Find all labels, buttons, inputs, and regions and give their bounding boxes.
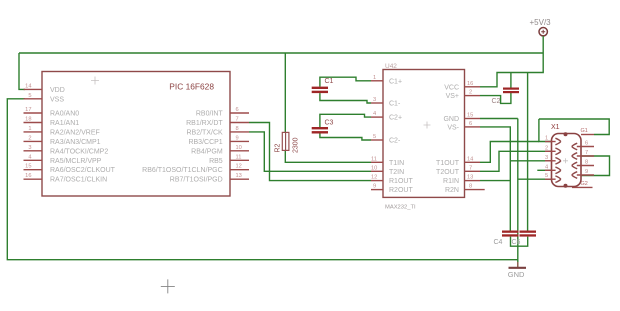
wire T1OUT to X1 pin 1 riser	[480, 142, 539, 163]
pin RA2/AN2/VREF 1	[24, 126, 100, 137]
svg-text:9: 9	[236, 135, 239, 141]
pin VCC 16	[444, 81, 480, 92]
svg-text:4: 4	[545, 164, 548, 170]
svg-text:T2IN: T2IN	[389, 169, 404, 176]
wire X1 pin1 riser to G1 net	[539, 119, 552, 142]
svg-text:10: 10	[371, 165, 377, 171]
wire VDD from rail to PIC pin 14	[19, 53, 25, 89]
wire C2 top stub to +5V run	[510, 73, 512, 88]
svg-text:7: 7	[469, 165, 472, 171]
svg-text:4: 4	[28, 154, 31, 160]
wire C1 bottom to MAX232 C1-	[320, 93, 371, 103]
SECTION: wires	[7, 53, 609, 268]
origin cross PIC	[91, 77, 99, 85]
pin T1IN 11	[371, 156, 404, 167]
pin R1IN 13	[443, 175, 480, 186]
wire R2 top lead to +5V rail	[284, 53, 286, 132]
IC U42 MAX232 body	[383, 70, 465, 198]
pin RA5/MCLR/VPP 4	[24, 154, 102, 165]
svg-text:GND: GND	[508, 270, 525, 279]
pin GND 15	[443, 113, 480, 124]
pin RB1/RX/DT 7	[186, 117, 249, 128]
origin cross X1	[563, 158, 568, 163]
svg-text:8: 8	[585, 160, 588, 166]
pin X1-7	[572, 150, 594, 159]
wire VS- to C4 vertical	[480, 127, 510, 231]
connector X1 body	[552, 134, 582, 187]
svg-text:C1: C1	[325, 78, 334, 85]
svg-text:5: 5	[28, 93, 31, 99]
wire X1 pin7 to pin9 loop	[581, 156, 610, 176]
svg-text:VCC: VCC	[444, 84, 459, 91]
svg-text:C4: C4	[494, 239, 503, 246]
svg-text:PIC 16F628: PIC 16F628	[169, 82, 214, 92]
svg-text:11: 11	[236, 154, 242, 160]
wire X1 pin4 dead-end	[537, 169, 551, 171]
svg-text:R1IN: R1IN	[443, 178, 459, 185]
svg-text:1: 1	[28, 126, 31, 132]
resistor R2	[275, 132, 300, 153]
pin RA1/AN1 18	[24, 117, 80, 128]
wire node to X1 pin 3	[510, 160, 551, 162]
pin RA7/OSC1/CLKIN 16	[24, 173, 108, 184]
svg-text:6: 6	[469, 121, 472, 127]
pin C2- 5	[371, 134, 401, 145]
svg-text:MAX232_TI: MAX232_TI	[385, 205, 416, 211]
svg-text:18: 18	[25, 117, 31, 123]
wire R1IN to vertical node	[480, 180, 510, 182]
pin RA0/AN0 17	[24, 107, 80, 118]
svg-text:R1OUT: R1OUT	[389, 178, 413, 185]
pin R2OUT 9	[371, 184, 413, 195]
svg-text:RA2/AN2/VREF: RA2/AN2/VREF	[50, 129, 100, 136]
pin RB2/TX/CK 8	[187, 126, 249, 137]
ground symbol GND	[508, 262, 526, 279]
svg-text:RB2/TX/CK: RB2/TX/CK	[187, 129, 224, 136]
pin VSS 5	[24, 93, 65, 104]
svg-text:16: 16	[467, 81, 473, 87]
svg-text:X1: X1	[551, 124, 560, 131]
wire +5V branch down to C6	[527, 73, 529, 231]
pin VDD 14	[24, 83, 65, 94]
origin cross sheet	[161, 279, 175, 293]
pin T2IN 10	[371, 165, 404, 176]
pin X1-4	[545, 164, 561, 173]
origin cross MAX232	[424, 122, 431, 129]
svg-text:16: 16	[25, 173, 31, 179]
svg-text:3: 3	[373, 97, 376, 103]
svg-text:+5V/3: +5V/3	[530, 18, 552, 27]
svg-text:10: 10	[236, 145, 242, 151]
svg-text:G1: G1	[581, 128, 588, 134]
svg-text:G2: G2	[581, 181, 588, 187]
pin C2+ 4	[371, 111, 402, 122]
SECTION: pic	[24, 72, 250, 197]
svg-text:15: 15	[25, 164, 31, 170]
svg-text:14: 14	[467, 156, 473, 162]
wire G1 net top run	[539, 119, 609, 135]
wire +5V top rail	[19, 52, 543, 54]
svg-text:5: 5	[373, 134, 376, 140]
pin C1- 3	[371, 97, 401, 108]
pin X1-2	[545, 145, 561, 154]
pin RB0/INT 6	[196, 107, 249, 118]
pin R1OUT 12	[371, 175, 413, 186]
svg-text:VDD: VDD	[50, 87, 65, 94]
svg-text:R2: R2	[275, 143, 282, 152]
shield dot G1	[564, 132, 568, 136]
svg-text:C1+: C1+	[389, 78, 402, 85]
pin T1OUT 14	[436, 156, 480, 167]
pin RA4/TOCKI/CMP2 3	[24, 145, 109, 156]
svg-text:1: 1	[545, 136, 548, 142]
svg-text:T1IN: T1IN	[389, 160, 404, 167]
svg-text:RB0/INT: RB0/INT	[196, 111, 224, 118]
wire RB2 to T2IN	[249, 132, 371, 171]
svg-text:14: 14	[25, 83, 31, 89]
wire +5V drop to VCC of MAX232	[480, 53, 543, 87]
svg-text:3: 3	[28, 145, 31, 151]
SECTION: x1	[545, 124, 594, 188]
svg-text:T1OUT: T1OUT	[436, 160, 460, 167]
SECTION: max	[371, 63, 485, 211]
svg-text:C2: C2	[492, 98, 501, 105]
svg-text:C2+: C2+	[389, 115, 402, 122]
svg-text:RA7/OSC1/CLKIN: RA7/OSC1/CLKIN	[50, 177, 107, 184]
wire T2OUT to X1 pin 2	[480, 151, 552, 171]
pin VS+ 2	[446, 90, 480, 101]
pin RB3/CCP1 9	[188, 135, 249, 146]
svg-text:RA6/OSC2/CLKOUT: RA6/OSC2/CLKOUT	[50, 167, 116, 174]
svg-text:13: 13	[467, 175, 473, 181]
wire R2 bottom lead to T1IN	[285, 150, 371, 162]
pin X1-5	[545, 173, 561, 182]
svg-text:17: 17	[25, 107, 31, 113]
svg-text:RB3/CCP1: RB3/CCP1	[188, 139, 222, 146]
pin R2N 8	[445, 184, 485, 195]
svg-text:3: 3	[545, 155, 548, 161]
wire C1 top to MAX232 C1+	[320, 77, 371, 86]
wire MAX232 GND pin to ground vertical	[480, 118, 518, 120]
svg-text:8: 8	[469, 184, 472, 190]
svg-text:2: 2	[469, 90, 472, 96]
svg-text:C1-: C1-	[389, 101, 401, 108]
svg-text:RA5/MCLR/VPP: RA5/MCLR/VPP	[50, 158, 102, 165]
svg-text:6: 6	[585, 141, 588, 147]
capacitor C4	[494, 231, 519, 247]
wire C4 C6 bottom bar	[511, 237, 528, 247]
wire ground to X1 pin 5	[518, 178, 552, 180]
svg-text:7: 7	[585, 150, 588, 156]
pin G2	[572, 181, 593, 187]
svg-text:15: 15	[467, 113, 473, 119]
svg-text:12: 12	[371, 175, 377, 181]
pin RB5 11	[209, 154, 249, 165]
wire RB1 to R1OUT	[249, 123, 371, 181]
svg-text:4: 4	[373, 111, 376, 117]
pin RA3/AN3/CMP1 2	[24, 135, 101, 146]
svg-text:C6: C6	[512, 239, 521, 246]
svg-text:RA3/AN3/CMP1: RA3/AN3/CMP1	[50, 139, 101, 146]
svg-text:C3: C3	[325, 120, 334, 127]
svg-text:U42: U42	[385, 63, 397, 70]
svg-text:RB4/PGM: RB4/PGM	[191, 148, 223, 155]
svg-text:VS+: VS+	[446, 93, 459, 100]
pin RA6/OSC2/CLKOUT 15	[24, 164, 116, 175]
wire C3 bottom to MAX232 C2-	[320, 134, 371, 141]
pin T2OUT 7	[436, 165, 480, 176]
svg-text:7: 7	[236, 117, 239, 123]
pin C1+ 1	[371, 75, 402, 86]
pin X1-8	[572, 160, 594, 169]
pin VS- 6	[447, 121, 480, 131]
svg-text:RB6/T1OSO/T1CLN/PGC: RB6/T1OSO/T1CLN/PGC	[142, 167, 223, 174]
pin RB7/T1OSI/PGD 13	[170, 173, 249, 184]
pin RB4/PGM 10	[191, 145, 249, 156]
svg-text:VSS: VSS	[50, 96, 64, 103]
pin G1	[581, 128, 595, 135]
capacitor C6	[512, 231, 537, 247]
SECTION: passives	[161, 18, 551, 293]
svg-text:2: 2	[28, 135, 31, 141]
wire C3 top to MAX232 C2+	[320, 114, 371, 127]
svg-text:5: 5	[545, 173, 548, 179]
svg-text:2: 2	[545, 145, 548, 151]
wire ground vertical to GND symbol	[517, 119, 519, 268]
svg-text:GND: GND	[443, 116, 459, 123]
svg-text:RA0/AN0: RA0/AN0	[50, 111, 79, 118]
svg-text:RB1/RX/DT: RB1/RX/DT	[186, 120, 223, 127]
svg-text:6: 6	[236, 107, 239, 113]
svg-text:9: 9	[585, 169, 588, 175]
capacitor C1	[312, 78, 334, 93]
wire VS+ to C2 bottom	[480, 93, 511, 103]
pin X1-9	[572, 169, 594, 178]
wire VSS of PIC to bottom ground run	[7, 99, 518, 260]
pin X1-1	[545, 136, 561, 145]
svg-text:RA1/AN1: RA1/AN1	[50, 120, 79, 127]
svg-text:RB7/T1OSI/PGD: RB7/T1OSI/PGD	[170, 177, 223, 184]
svg-text:1: 1	[373, 75, 376, 81]
svg-text:VS-: VS-	[447, 124, 459, 131]
pin X1-3	[545, 155, 561, 164]
svg-text:8: 8	[236, 126, 239, 132]
shield dot G2	[564, 184, 568, 188]
svg-text:9: 9	[373, 184, 376, 190]
pin X1-6	[572, 141, 594, 150]
svg-text:12: 12	[236, 164, 242, 170]
svg-text:RA4/TOCKI/CMP2: RA4/TOCKI/CMP2	[50, 148, 108, 155]
supply +5V symbol	[530, 18, 552, 53]
svg-text:R2N: R2N	[445, 187, 459, 194]
svg-text:R2OUT: R2OUT	[389, 187, 413, 194]
pin RB6/T1OSO/T1CLN/PGC 12	[142, 164, 249, 175]
svg-text:13: 13	[236, 173, 242, 179]
svg-text:RB5: RB5	[209, 158, 223, 165]
IC U1 PIC 16F628 body	[42, 72, 230, 197]
svg-text:11: 11	[371, 156, 377, 162]
svg-text:C2-: C2-	[389, 138, 401, 145]
svg-text:T2OUT: T2OUT	[436, 169, 460, 176]
capacitor C3	[312, 120, 334, 134]
capacitor C2	[492, 88, 520, 106]
svg-text:2300: 2300	[293, 137, 300, 153]
